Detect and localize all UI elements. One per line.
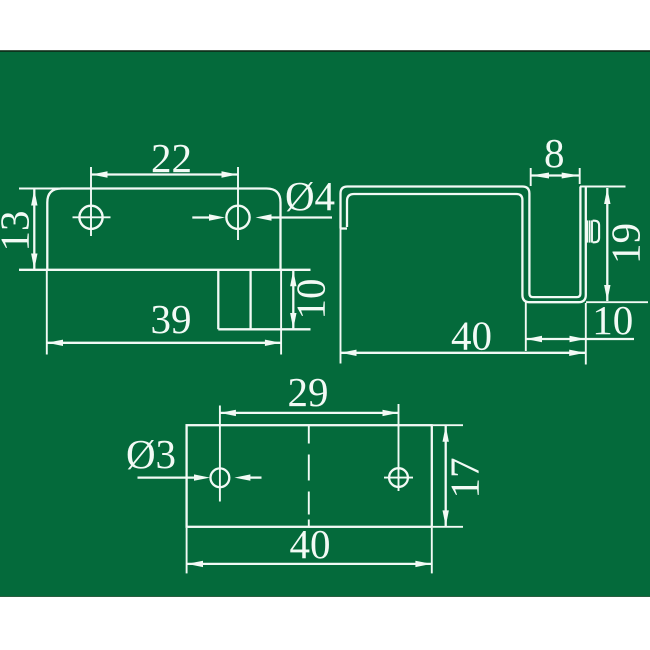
dim 17 line: [445, 426, 447, 527]
svg-text:29: 29: [288, 369, 329, 415]
dim 8 right extension line: [579, 168, 581, 184]
arrowhead dim10s right: [570, 336, 586, 342]
arrowhead dia3 right (points left): [234, 474, 250, 480]
right wall top cap + dim 19 top extension: [580, 186, 626, 188]
arrowhead dim10s left: [526, 336, 542, 342]
hole H3 vertical centerline / extension for dim 29: [219, 406, 221, 502]
dia3 left leader shaft: [138, 476, 197, 478]
dim 40 bottom line: [187, 563, 431, 565]
dim 39 right extension line: [280, 271, 282, 355]
dim 13 line: [33, 190, 35, 270]
svg-text:40: 40: [290, 521, 331, 567]
svg-text:10: 10: [288, 279, 334, 320]
hook end cap: [341, 227, 348, 229]
svg-text:39: 39: [151, 296, 192, 342]
dim 40 side line: [341, 352, 586, 354]
dim 19 bottom extension line: [586, 301, 648, 303]
dim 19 line: [606, 188, 608, 301]
arrowhead dim22 right: [222, 171, 238, 177]
dim 40 bottom right extension line: [431, 528, 433, 573]
stud ridge 2: [589, 220, 591, 242]
svg-text:Ø4: Ø4: [285, 173, 335, 219]
arrowhead dim8 right: [562, 173, 580, 179]
arrowhead dim40s right: [569, 350, 585, 356]
arrowhead dim39 right: [265, 340, 281, 346]
arrowhead dim17 top: [443, 426, 449, 442]
svg-text:13: 13: [0, 211, 38, 252]
hole H4 vertical centerline / extension for dim 29: [398, 404, 400, 491]
plate outline: [47, 189, 280, 270]
stud ridge 1: [586, 220, 588, 242]
dim 39 left extension line: [46, 271, 48, 355]
svg-text:Ø3: Ø3: [126, 431, 176, 477]
hole H1 circle: [79, 206, 102, 229]
dim 10 side line: [526, 338, 634, 340]
dia4 left leader shaft: [192, 216, 212, 218]
stud cap: [593, 221, 600, 243]
arrowhead dim10f bottom: [290, 313, 296, 329]
dim 40 bottom left extension line: [186, 528, 188, 573]
svg-text:40: 40: [451, 313, 492, 359]
arrowhead dim29 left: [220, 410, 236, 416]
dim 22 line: [91, 173, 238, 175]
dark bottom edge of board: [0, 596, 650, 597]
dim 17 top extension line: [433, 424, 463, 426]
svg-text:17: 17: [442, 458, 488, 499]
hole H1 vertical centerline / extension for dim 22: [90, 167, 92, 236]
rectangle outline: [187, 425, 432, 527]
profile inner path (bottom surface, down-run left, U-bottom, right wall right): [347, 187, 586, 303]
arrowhead dim17 bottom: [443, 510, 449, 526]
arrowhead dim13 bottom: [31, 254, 37, 270]
arrowhead dim22 left: [92, 171, 108, 177]
dia3 right leader shaft: [249, 476, 262, 478]
arrowhead dim13 top: [31, 190, 37, 206]
arrowhead dim29 right: [383, 410, 399, 416]
stud ridge 3: [591, 220, 593, 242]
arrowhead dim40s left: [341, 350, 357, 356]
arrowhead dim40b right: [415, 561, 431, 567]
tab bottom edge + extension right for dim 10: [218, 328, 310, 330]
hole H2 circle: [226, 206, 249, 229]
dim 39 line: [47, 342, 281, 344]
hole H4 circle: [389, 468, 408, 487]
hole H1 horizontal crosshair: [73, 216, 111, 218]
arrowhead dia3 left (points right): [194, 474, 210, 480]
profile outer path (top surface, hook, down-run right, U-top, right wall left): [341, 187, 581, 298]
dim 40 side left extension (hook line continues down): [340, 229, 342, 364]
dim 8 line: [531, 174, 580, 176]
dim 13 top extension line: [19, 188, 71, 190]
tab below plate: [218, 270, 250, 330]
arrowhead dim40b left: [187, 561, 203, 567]
hole H4 horizontal crosshair: [384, 477, 413, 479]
dim 17 bottom extension line: [433, 526, 463, 528]
arrowhead dia4 right (points left): [256, 214, 272, 220]
dim 10 side / 40 side right extension line: [585, 303, 587, 365]
svg-text:8: 8: [544, 130, 565, 176]
dim 8 left extension line: [530, 168, 532, 186]
arrowhead dim8 left: [531, 173, 549, 179]
dia4 right leader shaft: [270, 216, 332, 218]
arrowhead dim19 bottom: [604, 285, 610, 301]
svg-text:10: 10: [592, 297, 633, 343]
plate bottom edge + extension right for dim 10: [19, 269, 311, 271]
arrowhead dia4 left (points right): [209, 214, 225, 220]
svg-text:22: 22: [151, 135, 192, 181]
dashed center line: [308, 426, 310, 527]
hole H2 vertical centerline / extension for dim 22: [237, 167, 239, 240]
dark top edge of board: [0, 50, 650, 52]
arrowhead dim19 top: [604, 188, 610, 204]
arrowhead dim39 left: [47, 340, 63, 346]
dim 29 line: [220, 412, 399, 414]
hole H3 circle: [211, 468, 230, 487]
dim 10 front line: [292, 270, 294, 329]
arrowhead dim10f top: [290, 270, 296, 286]
dim 10 side left extension line: [525, 302, 527, 351]
svg-text:19: 19: [603, 223, 649, 264]
